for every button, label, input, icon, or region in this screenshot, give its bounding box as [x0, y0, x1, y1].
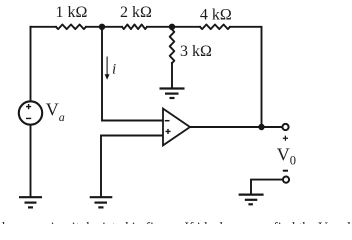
- resistor 4 kΩ: [200, 24, 230, 29]
- voltage source Va: [19, 101, 42, 124]
- wire from source Va bottom to ground: [30, 125, 32, 197]
- svg-text:Va: Va: [46, 100, 65, 124]
- op-amp U1: [163, 109, 190, 146]
- resistor 3 kΩ: [170, 30, 175, 64]
- svg-text:he amp circuit depicted in fig: he amp circuit depicted in figure. If id…: [2, 220, 352, 225]
- wire top-left segment: [31, 26, 57, 28]
- output node junction dot: [258, 124, 264, 130]
- ground (below 3 kΩ): [160, 89, 185, 99]
- wire from non-inverting input to middle ground: [101, 136, 163, 197]
- current arrow i: [105, 57, 110, 80]
- svg-text:3 kΩ: 3 kΩ: [180, 43, 212, 60]
- ground (middle, below non-inverting input): [90, 197, 113, 207]
- wire 3kΩ lower lead: [171, 63, 173, 88]
- node B junction dot: [169, 24, 175, 30]
- output terminal -: [283, 177, 289, 183]
- wire from node A down to inverting input: [102, 27, 163, 121]
- svg-text:4 kΩ: 4 kΩ: [200, 6, 232, 23]
- resistor 2 kΩ: [122, 24, 147, 29]
- label V0 minus sign: [283, 170, 288, 172]
- wire left branch down to source Va: [30, 27, 32, 102]
- resistor 1 kΩ: [56, 24, 86, 29]
- ground (lower right, below output return): [239, 195, 264, 205]
- svg-text:2 kΩ: 2 kΩ: [120, 4, 152, 21]
- ground (below Va): [19, 197, 42, 207]
- node A junction dot: [99, 24, 105, 30]
- wire between R1 and R2: [86, 26, 122, 28]
- svg-text:i: i: [112, 62, 116, 78]
- svg-text:V0: V0: [277, 144, 296, 167]
- wire lower terminal to ground: [251, 180, 283, 194]
- wire op-amp output: [190, 126, 282, 128]
- output terminal +: [282, 124, 288, 130]
- wire top-right segment and right drop to output node: [230, 27, 262, 127]
- svg-text:1 kΩ: 1 kΩ: [56, 4, 88, 21]
- wire between R2 and R4: [147, 26, 200, 28]
- label V0 plus sign: [283, 136, 288, 141]
